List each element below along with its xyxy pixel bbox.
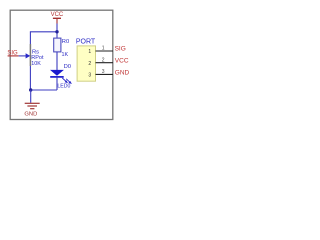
svg-text:GND: GND — [24, 111, 37, 117]
svg-text:SIG: SIG — [115, 46, 126, 53]
svg-text:3: 3 — [88, 73, 91, 79]
svg-text:2: 2 — [88, 61, 91, 67]
wire pot bottom — [29, 66, 31, 90]
wire bottom horizontal — [30, 89, 57, 91]
junction node VCC/R0 — [55, 30, 58, 33]
ground — [24, 103, 39, 117]
wiper arrow of potentiometer — [26, 53, 31, 58]
power VCC — [51, 12, 64, 23]
junction node pot/LED/ground — [29, 88, 32, 91]
svg-text:LED0: LED0 — [57, 84, 70, 90]
connector PORT body — [77, 46, 95, 81]
wire pot top — [29, 31, 31, 44]
net label SIG — [7, 51, 18, 57]
pin 3 — [88, 69, 113, 79]
wire VCC stem — [56, 24, 58, 39]
pin 1 — [88, 46, 113, 56]
svg-text:VCC: VCC — [51, 12, 64, 18]
wire LED cathode down — [56, 77, 58, 90]
svg-text:PORT: PORT — [76, 39, 96, 46]
svg-text:GND: GND — [115, 70, 130, 77]
svg-text:1: 1 — [88, 49, 91, 55]
wire R0 to LED — [56, 52, 58, 70]
svg-text:D0: D0 — [64, 64, 71, 70]
pin 2 — [88, 57, 113, 67]
potentiometer Rs body — [29, 44, 31, 66]
svg-text:R0: R0 — [62, 39, 69, 45]
svg-text:2: 2 — [102, 57, 105, 63]
svg-text:1K: 1K — [62, 52, 69, 58]
svg-text:1: 1 — [102, 46, 105, 52]
svg-text:3: 3 — [102, 69, 105, 75]
svg-text:10K: 10K — [31, 61, 41, 67]
wire to ground — [30, 90, 32, 103]
wire top horizontal — [30, 31, 57, 33]
LED D0 — [50, 70, 72, 84]
wire SIG to wiper — [19, 55, 27, 57]
svg-text:VCC: VCC — [115, 58, 129, 65]
resistor R0 — [54, 38, 61, 52]
